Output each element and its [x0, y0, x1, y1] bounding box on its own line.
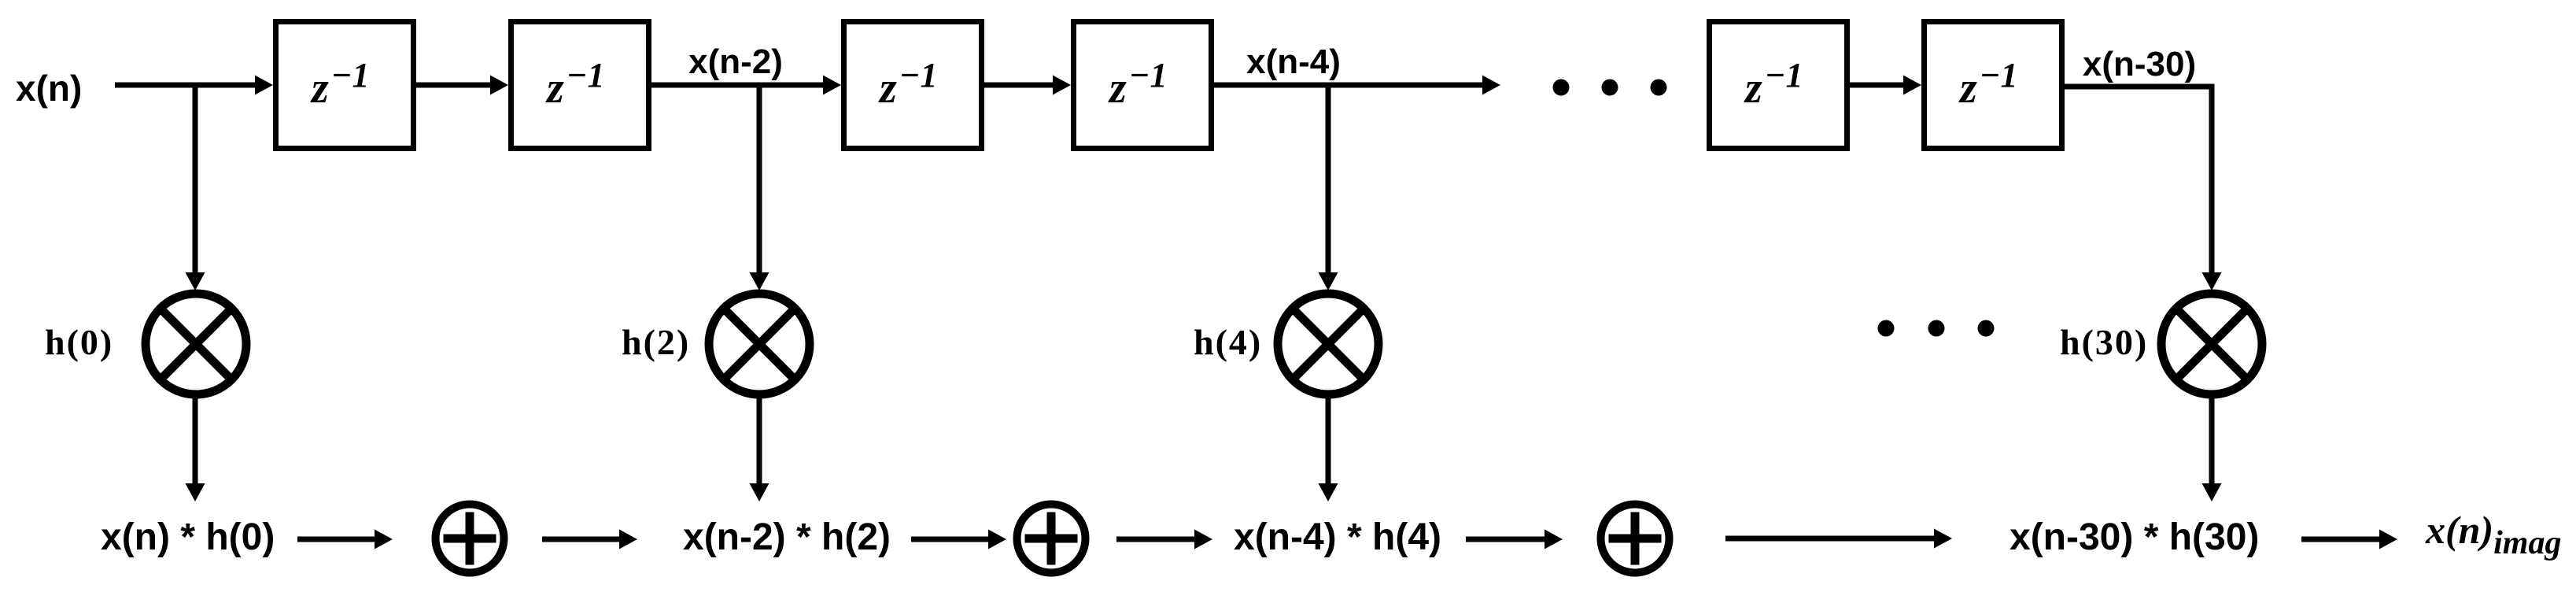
adder S3 — [1601, 505, 1670, 573]
wire M4 down to product — [1326, 396, 1331, 485]
wire Z1 to Z2 — [416, 83, 492, 88]
svg-text:x(n-4) * h(4): x(n-4) * h(4) — [1234, 516, 1441, 558]
wire M0 down to product — [193, 396, 198, 485]
multiplier M2 — [709, 294, 810, 394]
multiplier M0 — [146, 294, 246, 394]
wire Z2 to Z3 — [651, 83, 825, 88]
svg-text:x(n-30): x(n-30) — [2083, 45, 2196, 83]
svg-text:h(2): h(2) — [622, 322, 690, 362]
wire Z4 toward ellipsis — [1214, 83, 1484, 88]
delay block Z5 — [1710, 22, 1847, 149]
wire Z5 to Z6 — [1850, 83, 1905, 88]
svg-text:x(n-2) * h(2): x(n-2) * h(2) — [683, 516, 891, 558]
wire product0 to adder S1 — [297, 537, 376, 542]
delay block Z1 — [276, 22, 414, 149]
multiplier M4 — [1278, 294, 1378, 394]
delay block Z4 — [1074, 22, 1212, 149]
svg-text:h(0): h(0) — [45, 322, 113, 362]
wire tap node x(n-2) down to multiplier M2 — [757, 83, 762, 274]
wire tap node x(n) down to multiplier M0 — [193, 83, 198, 274]
wire adder S3 to product30 — [1725, 536, 1936, 542]
delay block Z6 — [1925, 22, 2062, 149]
wire product2 to adder S2 — [911, 537, 990, 542]
delay block Z3 — [844, 22, 982, 149]
wire product4 to adder S3 — [1466, 537, 1546, 542]
svg-text:x(n-30) * h(30): x(n-30) * h(30) — [2010, 516, 2259, 558]
wire M2 down to product — [757, 396, 762, 485]
wire adder S1 to product2 — [542, 537, 621, 542]
wire adder S2 to product4 — [1116, 537, 1196, 542]
wire Z6 out to corner and down to multiplier M30 — [2065, 87, 2212, 274]
ellipsis dots middle row — [1878, 320, 1895, 337]
svg-text:x(n) * h(0): x(n) * h(0) — [101, 516, 275, 558]
svg-text:h(4): h(4) — [1194, 322, 1262, 362]
svg-text:x(n-2): x(n-2) — [688, 43, 783, 81]
wire tap node x(n-4) down to multiplier M4 — [1326, 83, 1331, 274]
wire Z3 to Z4 — [984, 83, 1054, 88]
ellipsis dots top chain — [1553, 80, 1570, 96]
wire M30 down to product — [2209, 396, 2215, 485]
adder S1 — [436, 505, 504, 573]
svg-text:h(30): h(30) — [2060, 322, 2148, 362]
wire input to Z1 — [115, 83, 256, 88]
wire product30 to output — [2301, 537, 2381, 542]
svg-text:x(n): x(n) — [16, 68, 82, 109]
adder S2 — [1017, 505, 1086, 573]
multiplier M30 — [2161, 294, 2262, 394]
svg-text:x(n-4): x(n-4) — [1246, 43, 1341, 81]
delay block Z2 — [511, 22, 649, 149]
